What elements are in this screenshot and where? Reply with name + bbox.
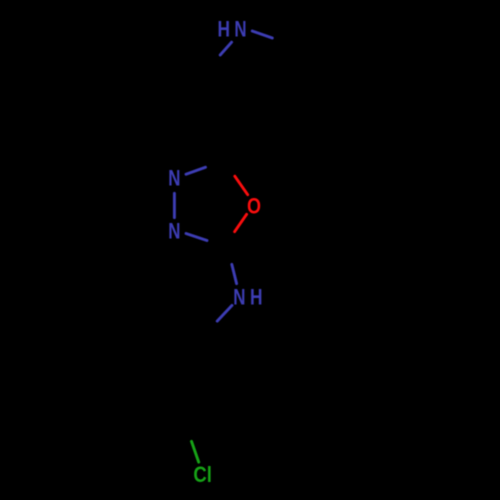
svg-text:H: H <box>250 285 263 310</box>
svg-text:Cl: Cl <box>193 462 212 487</box>
wire amine N to C2 (blue half-bond up) <box>232 264 237 283</box>
wire N3 oxadiazole to C top (blue half-bond) <box>186 167 206 174</box>
wire N(H) pyrrolidine to C right (blue half-bond) <box>252 31 272 38</box>
wire Cl to phenyl C4 (green half-bond) <box>192 441 199 462</box>
svg-text:H: H <box>217 17 230 42</box>
svg-text:N: N <box>168 219 180 244</box>
svg-text:N: N <box>233 285 245 310</box>
wire N4 oxadiazole to C2 (blue half-bond) <box>186 234 207 241</box>
wire amine N to phenyl C1 (blue half-bond down) <box>217 305 232 321</box>
svg-text:O: O <box>247 194 261 219</box>
wire N(H) pyrrolidine to C left (blue half-bond) <box>220 42 231 55</box>
wire O1 to C2 (red half-bond lower) <box>235 214 247 231</box>
wire O1 to C5 (red half-bond upper) <box>235 176 248 195</box>
wire N3-N4 oxadiazole bond <box>173 193 176 217</box>
svg-text:N: N <box>234 17 246 42</box>
svg-text:N: N <box>168 166 180 191</box>
